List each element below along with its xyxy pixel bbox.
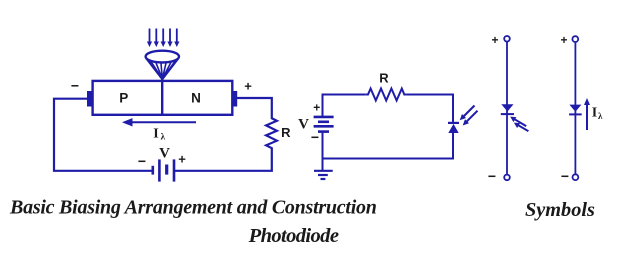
cone stem to junction <box>161 78 163 82</box>
svg-text:+: + <box>244 79 252 94</box>
svg-text:λ: λ <box>161 132 166 142</box>
svg-text:Basic Biasing Arrangement and: Basic Biasing Arrangement and Constructi… <box>9 197 377 219</box>
photocurrent arrow (left diagram) <box>130 121 196 123</box>
svg-text:R: R <box>379 71 389 86</box>
photodiode D1 (middle circuit) <box>448 122 459 124</box>
symbol 2: lead wire <box>574 42 576 174</box>
symbol 2: - terminal circle <box>573 174 579 180</box>
resistor R2 (horizontal zigzag) <box>365 89 407 101</box>
svg-text:I: I <box>153 127 158 142</box>
symbol 2: current arrow I_lambda <box>586 102 588 130</box>
symbol 2: photodiode D3 <box>569 105 581 112</box>
svg-text:−: − <box>71 78 79 94</box>
symbol 1: + terminal circle <box>504 36 510 42</box>
symbol 2: + terminal circle <box>572 36 578 42</box>
svg-text:−: − <box>311 129 319 145</box>
resistor R1 (vertical zigzag) <box>266 118 277 152</box>
svg-text:+: + <box>178 152 186 167</box>
lens <box>146 51 179 63</box>
middle circuit: wire battery top to top-left corner and top wire to resistor <box>323 95 366 117</box>
P-N body box <box>93 81 233 115</box>
svg-text:−: − <box>488 168 496 184</box>
svg-text:+: + <box>313 101 320 115</box>
wire: resistor top to right pad <box>237 98 272 118</box>
wire: battery plus to resistor bottom <box>174 152 272 171</box>
left contact pad <box>87 91 93 107</box>
svg-text:N: N <box>191 91 201 106</box>
svg-text:I: I <box>592 106 597 121</box>
wire: resistor to top-right corner down to photodiode <box>407 95 453 123</box>
right contact pad <box>232 91 238 107</box>
svg-text:R: R <box>281 125 291 140</box>
svg-text:−: − <box>561 168 569 184</box>
junction line <box>161 81 163 115</box>
wire: left pad to battery minus <box>54 99 153 171</box>
battery V1 <box>153 159 174 181</box>
svg-text:Photodiode: Photodiode <box>248 225 339 247</box>
svg-text:P: P <box>119 91 128 106</box>
svg-text:+: + <box>560 33 567 47</box>
svg-text:V: V <box>298 117 309 133</box>
svg-text:V: V <box>159 146 170 162</box>
battery V2 <box>314 117 334 132</box>
symbol 1: photodiode D2 <box>501 104 513 111</box>
svg-text:Symbols: Symbols <box>525 199 595 221</box>
svg-text:−: − <box>138 153 146 169</box>
svg-text:λ: λ <box>598 111 603 121</box>
symbol 1: lead wire <box>506 42 508 175</box>
wire: battery bottom to ground node and bottom wire <box>323 132 454 159</box>
symbol 1: light arrows <box>510 117 528 132</box>
light arrows into D1 <box>460 106 478 126</box>
svg-text:+: + <box>491 33 498 47</box>
lens cone with hatching <box>147 59 178 79</box>
light arrows above lens <box>147 29 180 48</box>
symbol 1: - terminal circle <box>504 175 510 181</box>
ground <box>314 159 333 180</box>
